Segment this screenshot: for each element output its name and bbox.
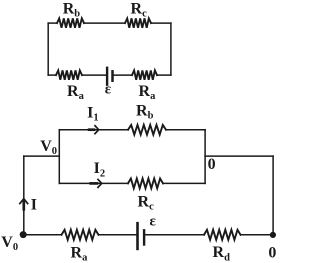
svg-text:I2: I2 [94,160,105,179]
battery epsilon (upper loop) short plate [111,71,114,80]
wire bottom rail segment to battery [99,234,137,236]
battery epsilon (bottom rail) short plate [143,230,145,244]
wire I2 branch left segment [59,182,128,184]
wire bottom edge left segment of upper loop [48,74,56,76]
wire left split vertical of middle loop at node V0 [58,130,60,184]
wire right vertical joining I1 and I2 branches [204,130,206,184]
resistor Ra (bottom rail) [62,230,99,240]
node 0 junction dot (bottom right) [270,232,276,238]
wire I2 branch right segment [163,182,205,184]
wire left edge vertical carrying current I [23,156,25,235]
wire right edge of upper loop [170,23,172,75]
svg-text:V0: V0 [1,234,18,253]
wire top edge left segment of upper loop [48,22,57,24]
wire I1 branch right segment [166,129,205,131]
node V0 junction dot (bottom left) [20,231,27,238]
wire I1 branch left segment [59,129,128,131]
resistor Rb (upper loop, top edge left) [57,18,84,27]
arrow I (current arrow on left vertical wire, pointing up) [19,199,28,211]
resistor Ra (upper loop, bottom edge right) [132,70,157,79]
svg-text:I1: I1 [87,105,98,124]
svg-text:Rb: Rb [136,103,154,122]
svg-text:Rc: Rc [138,194,155,213]
svg-text:0: 0 [208,156,216,173]
svg-text:Rc: Rc [131,1,148,20]
svg-text:V0: V0 [40,138,57,157]
svg-text:0: 0 [268,244,276,261]
battery epsilon (upper loop) long plate [106,68,108,85]
battery epsilon (bottom rail) long plate [136,223,139,249]
svg-text:I: I [31,196,37,213]
wire node 0 horizontal to right edge [205,155,273,157]
svg-text:Ra: Ra [139,83,157,102]
wire bottom edge segment after battery (upper loop) [114,74,132,76]
wire top edge middle segment of upper loop [84,22,125,24]
arrow I2 (current arrow on lower middle branch) [89,179,101,188]
resistor Rd (bottom rail) [204,230,241,240]
wire bottom rail segment after battery [145,234,204,236]
svg-text:ε: ε [150,214,157,230]
wire bottom edge right segment of upper loop [157,74,171,76]
wire right edge vertical down to bottom rail [272,156,274,235]
resistor Rc (upper loop, top edge right) [125,18,151,27]
resistor Ra (upper loop, bottom edge left) [56,70,82,79]
arrow I1 (current arrow on upper middle branch) [88,125,99,134]
svg-text:Ra: Ra [71,245,89,263]
wire bottom edge segment to battery (upper loop) [82,74,106,76]
wire bottom rail left segment [23,234,61,236]
resistor Rb (middle loop, I1 branch) [128,125,166,135]
svg-text:Rd: Rd [213,244,231,263]
resistor Rc (middle loop, I2 branch) [128,179,163,189]
svg-text:Rb: Rb [63,1,81,20]
wire bottom rail right segment [241,234,274,236]
svg-text:ε: ε [105,82,112,98]
wire V0 horizontal stub [24,155,60,157]
svg-text:Ra: Ra [67,83,85,102]
wire top edge right segment of upper loop [151,22,171,24]
wire left edge of upper loop [47,23,49,75]
